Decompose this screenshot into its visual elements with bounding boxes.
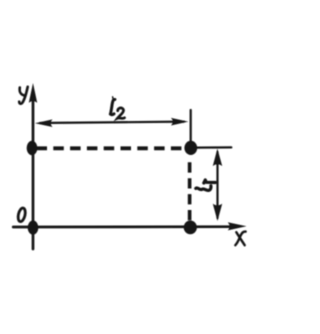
dimension l2 left arrowhead [35, 119, 53, 127]
extension line right of top-right node [197, 146, 231, 148]
node (0,l1) top-left dot [27, 141, 38, 156]
node (l2,0) bottom-right dot [184, 221, 197, 235]
label l1 (rotated) [196, 180, 216, 191]
dimension line l1 [216, 152, 218, 218]
dashed wire vertical x=l2 [188, 162, 192, 220]
node origin dot [28, 221, 39, 235]
y-axis arrowhead [29, 83, 37, 103]
dashed wire horizontal y=l1 [37, 146, 186, 150]
dimension line l2 [40, 122, 184, 123]
dimension l1 bottom arrowhead [213, 204, 222, 221]
x-axis line [13, 225, 232, 228]
label y [19, 87, 28, 104]
label x [235, 232, 245, 246]
dimension l1 top arrowhead [213, 149, 222, 166]
x-axis arrowhead [228, 222, 247, 230]
label 0 (origin) [17, 207, 27, 222]
node (l2,l1) top-right dot [184, 141, 197, 155]
y-axis line [32, 92, 35, 249]
label l2 [110, 97, 124, 119]
extension line above top-right node [190, 110, 192, 141]
dimension l2 right arrowhead [171, 118, 188, 126]
